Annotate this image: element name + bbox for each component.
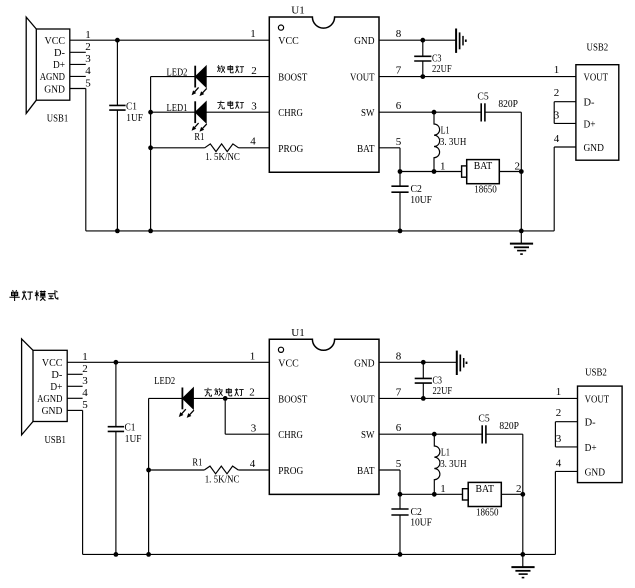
wire: C5 to right vertical bbox=[485, 112, 521, 231]
svg-text:PROG: PROG bbox=[278, 465, 303, 477]
wire: USB2 pin4 GND to rail bbox=[554, 147, 576, 231]
svg-text:BAT: BAT bbox=[476, 483, 495, 495]
svg-text:4: 4 bbox=[85, 65, 91, 77]
wire VOUT: U1 pin7 to USB2 pin1 (bottom circuit) bbox=[379, 397, 578, 399]
resistor R1 1.5K/NC bbox=[194, 131, 240, 163]
svg-text:L1: L1 bbox=[441, 446, 450, 458]
svg-text:5: 5 bbox=[396, 136, 402, 148]
capacitor C1 1UF bbox=[109, 40, 143, 231]
svg-text:4: 4 bbox=[556, 457, 562, 469]
svg-text:GND: GND bbox=[585, 466, 605, 478]
svg-text:D+: D+ bbox=[50, 381, 62, 393]
svg-text:VCC: VCC bbox=[42, 357, 63, 369]
svg-text:2: 2 bbox=[82, 363, 88, 375]
LED D1 (LED1) bbox=[192, 101, 207, 131]
svg-text:1: 1 bbox=[250, 350, 256, 362]
svg-text:LED2: LED2 bbox=[154, 375, 175, 387]
inductor L1 3.3UH bbox=[432, 112, 467, 174]
svg-text:2: 2 bbox=[516, 483, 522, 495]
svg-text:BAT: BAT bbox=[357, 143, 375, 155]
IC U1 bbox=[269, 5, 379, 173]
svg-text:BOOST: BOOST bbox=[278, 72, 307, 84]
wire: BOOST node down to CHRG pin3 (bottom circuit) bbox=[225, 398, 269, 434]
USB1 pin 4 stub and number (bottom circuit) bbox=[67, 387, 88, 399]
connector USB2 bbox=[576, 65, 619, 161]
capacitor C3 22UF bbox=[414, 40, 451, 79]
wire: USB2 D- / D+ bracket bbox=[554, 102, 576, 124]
svg-text:PROG: PROG bbox=[278, 143, 303, 155]
svg-text:4: 4 bbox=[250, 458, 256, 470]
svg-text:U1: U1 bbox=[291, 327, 305, 339]
wire: U1 pin8 GND to chassis ground (bottom circuit) bbox=[379, 360, 457, 365]
wire SW: U1 pin6 to C5 bbox=[379, 110, 481, 115]
svg-text:D-: D- bbox=[585, 417, 596, 429]
svg-text:3: 3 bbox=[251, 422, 257, 434]
svg-text:1: 1 bbox=[440, 483, 446, 495]
svg-text:1UF: 1UF bbox=[126, 112, 143, 124]
battery BAT 18650 bbox=[462, 160, 500, 196]
capacitor C5 820P bbox=[477, 91, 518, 122]
svg-text:C1: C1 bbox=[126, 100, 137, 112]
capacitor C1 1UF (bottom circuit) bbox=[108, 362, 142, 554]
label 充放电灯 (charge/discharge lamp) (bottom circuit) bbox=[204, 388, 243, 396]
svg-text:USB2: USB2 bbox=[587, 41, 609, 53]
svg-text:7: 7 bbox=[396, 386, 402, 398]
svg-text:D+: D+ bbox=[585, 442, 597, 454]
svg-text:D+: D+ bbox=[584, 118, 596, 130]
svg-text:D-: D- bbox=[51, 369, 62, 381]
svg-text:SW: SW bbox=[361, 107, 375, 119]
svg-text:BAT: BAT bbox=[474, 160, 493, 172]
earth ground symbol bbox=[510, 231, 533, 255]
svg-text:2: 2 bbox=[85, 41, 91, 53]
svg-text:18650: 18650 bbox=[476, 508, 499, 519]
svg-text:VOUT: VOUT bbox=[585, 393, 610, 405]
wire: LED1 to U1 pin3 CHRG bbox=[206, 111, 269, 113]
svg-text:USB1: USB1 bbox=[47, 113, 69, 125]
svg-text:2: 2 bbox=[251, 65, 257, 77]
chassis ground symbol (bottom circuit) bbox=[457, 351, 468, 375]
wire GND: USB1 pin5 down to rail bbox=[85, 89, 87, 231]
svg-text:USB2: USB2 bbox=[585, 366, 607, 378]
svg-text:U1: U1 bbox=[291, 5, 305, 17]
svg-text:BOOST: BOOST bbox=[278, 393, 307, 405]
capacitor C2 10UF (bottom circuit) bbox=[391, 494, 432, 554]
svg-text:2: 2 bbox=[515, 160, 521, 172]
svg-text:22UF: 22UF bbox=[432, 63, 452, 75]
svg-text:CHRG: CHRG bbox=[278, 429, 303, 441]
svg-text:7: 7 bbox=[396, 65, 402, 77]
resistor R1 1.5K/NC (bottom circuit) bbox=[192, 456, 239, 485]
USB1 pin 2 stub and number (bottom circuit) bbox=[67, 363, 88, 375]
wire: common to LED2 (bottom circuit) bbox=[149, 397, 183, 399]
wire: R1 to U1 pin4 PROG (bottom circuit) bbox=[238, 469, 269, 471]
svg-text:1UF: 1UF bbox=[125, 433, 142, 445]
svg-text:GND: GND bbox=[584, 142, 604, 154]
svg-text:CHRG: CHRG bbox=[278, 107, 303, 119]
svg-text:4: 4 bbox=[250, 136, 256, 148]
capacitor C2 10UF bbox=[391, 172, 432, 231]
svg-text:1: 1 bbox=[556, 386, 562, 398]
svg-text:1: 1 bbox=[250, 28, 256, 40]
wire: LED2 to U1 pin2 BOOST (bottom circuit) bbox=[194, 396, 270, 401]
inductor L1 3.3UH (bottom circuit) bbox=[432, 434, 467, 496]
svg-text:1: 1 bbox=[82, 351, 88, 363]
svg-text:BAT: BAT bbox=[357, 465, 375, 477]
svg-text:6: 6 bbox=[396, 422, 402, 434]
svg-text:AGND: AGND bbox=[40, 71, 65, 83]
svg-text:VOUT: VOUT bbox=[350, 72, 375, 84]
connector USB2 (bottom circuit) bbox=[578, 386, 623, 483]
svg-text:5: 5 bbox=[396, 458, 402, 470]
svg-text:3. 3UH: 3. 3UH bbox=[440, 137, 467, 148]
svg-text:GND: GND bbox=[354, 357, 374, 369]
wire SW: U1 pin6 to C5 (bottom circuit) bbox=[379, 432, 482, 437]
svg-text:LED1: LED1 bbox=[167, 102, 188, 114]
chassis ground symbol bbox=[456, 29, 467, 53]
svg-text:18650: 18650 bbox=[474, 185, 497, 196]
svg-text:D+: D+ bbox=[53, 59, 65, 71]
label 充电灯 (charge lamp) bbox=[217, 101, 244, 109]
svg-text:VCC: VCC bbox=[45, 35, 66, 47]
svg-text:GND: GND bbox=[42, 405, 63, 417]
svg-text:1. 5K/NC: 1. 5K/NC bbox=[205, 474, 240, 485]
connector USB1 (bottom circuit) bbox=[22, 339, 68, 435]
svg-text:6: 6 bbox=[396, 100, 402, 112]
wire: R1 to U1 pin4 PROG bbox=[239, 147, 270, 149]
IC U1 (bottom circuit) bbox=[269, 327, 379, 495]
svg-text:2: 2 bbox=[556, 407, 562, 419]
wire: U1 pin5 BAT down to battery row bbox=[379, 148, 402, 174]
USB1 pin 3 stub and number bbox=[70, 53, 91, 65]
svg-text:1. 5K/NC: 1. 5K/NC bbox=[205, 152, 240, 163]
label 放电灯 (discharge lamp) bbox=[217, 65, 244, 73]
svg-text:3: 3 bbox=[82, 375, 88, 387]
LED D2 (LED2) bbox=[192, 66, 207, 96]
svg-text:22UF: 22UF bbox=[433, 385, 453, 397]
svg-text:R1: R1 bbox=[192, 456, 202, 468]
wire: USB2 D- / D+ bracket (bottom circuit) bbox=[555, 422, 577, 447]
svg-text:1: 1 bbox=[85, 29, 91, 41]
svg-text:820P: 820P bbox=[498, 99, 518, 110]
svg-text:SW: SW bbox=[361, 429, 375, 441]
svg-text:4: 4 bbox=[82, 387, 88, 399]
wire GND: USB1 pin5 down to rail (bottom circuit) bbox=[82, 410, 84, 554]
svg-text:VCC: VCC bbox=[278, 35, 298, 47]
capacitor C5 820P (bottom circuit) bbox=[478, 413, 519, 444]
svg-text:3: 3 bbox=[85, 53, 91, 65]
wire: common to R1 (bottom circuit) bbox=[146, 468, 204, 473]
title 单灯模式 (single-lamp mode) bbox=[9, 290, 57, 301]
wire: C5 to right vertical (bottom circuit) bbox=[486, 434, 523, 554]
wire: battery row to BAT terminal 1 (bottom circuit) bbox=[400, 493, 463, 495]
svg-text:3: 3 bbox=[556, 433, 562, 445]
svg-text:8: 8 bbox=[396, 350, 402, 362]
svg-text:2: 2 bbox=[249, 387, 255, 399]
wire: common to LED1 bbox=[148, 110, 195, 115]
USB1 pin 1 stub and number bbox=[85, 29, 91, 41]
svg-text:D-: D- bbox=[54, 47, 65, 59]
svg-text:VOUT: VOUT bbox=[350, 393, 375, 405]
USB1 pin 4 stub and number bbox=[70, 65, 91, 77]
svg-text:LED2: LED2 bbox=[167, 67, 188, 79]
svg-text:5: 5 bbox=[82, 399, 88, 411]
wire: common to R1 bbox=[148, 145, 204, 150]
svg-text:VCC: VCC bbox=[278, 357, 298, 369]
svg-text:3: 3 bbox=[554, 109, 560, 121]
wire: U1 pin5 BAT down to battery row (bottom circuit) bbox=[379, 470, 402, 497]
svg-text:1: 1 bbox=[554, 64, 560, 76]
svg-text:D-: D- bbox=[584, 97, 595, 109]
wire: USB2 pin4 GND to rail (bottom circuit) bbox=[555, 471, 577, 554]
earth ground symbol (bottom circuit) bbox=[511, 554, 534, 578]
svg-text:10UF: 10UF bbox=[410, 517, 432, 529]
USB1 pin 5 stub and number bbox=[70, 77, 91, 89]
LED D2 (LED2) (bottom circuit) bbox=[179, 388, 194, 418]
svg-text:820P: 820P bbox=[499, 421, 519, 432]
wire VCC: USB1 pin1 to U1 pin1 (bottom circuit) bbox=[67, 360, 269, 365]
wire: LED/R1 common vertical (bottom circuit) bbox=[148, 398, 150, 554]
wire: BAT terminal 2 to right vertical bbox=[499, 169, 523, 174]
svg-text:4: 4 bbox=[554, 133, 560, 145]
svg-text:L1: L1 bbox=[441, 124, 450, 136]
wire: U1 pin8 GND to chassis ground bbox=[379, 38, 456, 43]
wire VCC: USB1 pin1 to U1 pin1 bbox=[70, 38, 269, 43]
battery BAT 18650 (bottom circuit) bbox=[463, 482, 502, 518]
svg-text:VOUT: VOUT bbox=[584, 72, 609, 84]
wire: ground rail bbox=[86, 229, 554, 234]
wire: LED/R1 common vertical bbox=[150, 77, 152, 231]
svg-text:R1: R1 bbox=[194, 131, 204, 143]
svg-text:GND: GND bbox=[44, 83, 65, 95]
wire VOUT: U1 pin7 to USB2 pin1 bbox=[379, 76, 576, 78]
svg-text:GND: GND bbox=[354, 35, 374, 47]
svg-text:3: 3 bbox=[251, 100, 257, 112]
USB1 pin 5 stub and number (bottom circuit) bbox=[67, 399, 88, 411]
USB1 pin 2 stub and number bbox=[70, 41, 91, 53]
svg-text:C5: C5 bbox=[477, 91, 489, 103]
wire: ground rail (bottom circuit) bbox=[83, 552, 556, 557]
svg-text:C5: C5 bbox=[478, 413, 490, 425]
svg-text:2: 2 bbox=[554, 87, 560, 99]
capacitor C3 22UF (bottom circuit) bbox=[415, 362, 452, 401]
wire: LED2 to U1 pin2 BOOST bbox=[206, 76, 269, 78]
svg-text:10UF: 10UF bbox=[410, 194, 432, 206]
svg-text:5: 5 bbox=[85, 77, 91, 89]
USB1 pin 3 stub and number (bottom circuit) bbox=[67, 375, 88, 387]
svg-text:3. 3UH: 3. 3UH bbox=[440, 459, 467, 470]
wire: BAT terminal 2 to right vertical (bottom circuit) bbox=[501, 492, 525, 497]
svg-text:C1: C1 bbox=[125, 422, 136, 434]
svg-text:USB1: USB1 bbox=[44, 434, 66, 446]
svg-text:8: 8 bbox=[396, 28, 402, 40]
connector USB1 bbox=[26, 17, 70, 113]
wire: common to LED2 bbox=[151, 76, 196, 78]
svg-text:1: 1 bbox=[440, 160, 446, 172]
wire: battery row to BAT terminal 1 bbox=[400, 171, 462, 173]
USB1 pin 1 stub and number (bottom circuit) bbox=[82, 351, 88, 363]
svg-text:AGND: AGND bbox=[37, 393, 62, 405]
